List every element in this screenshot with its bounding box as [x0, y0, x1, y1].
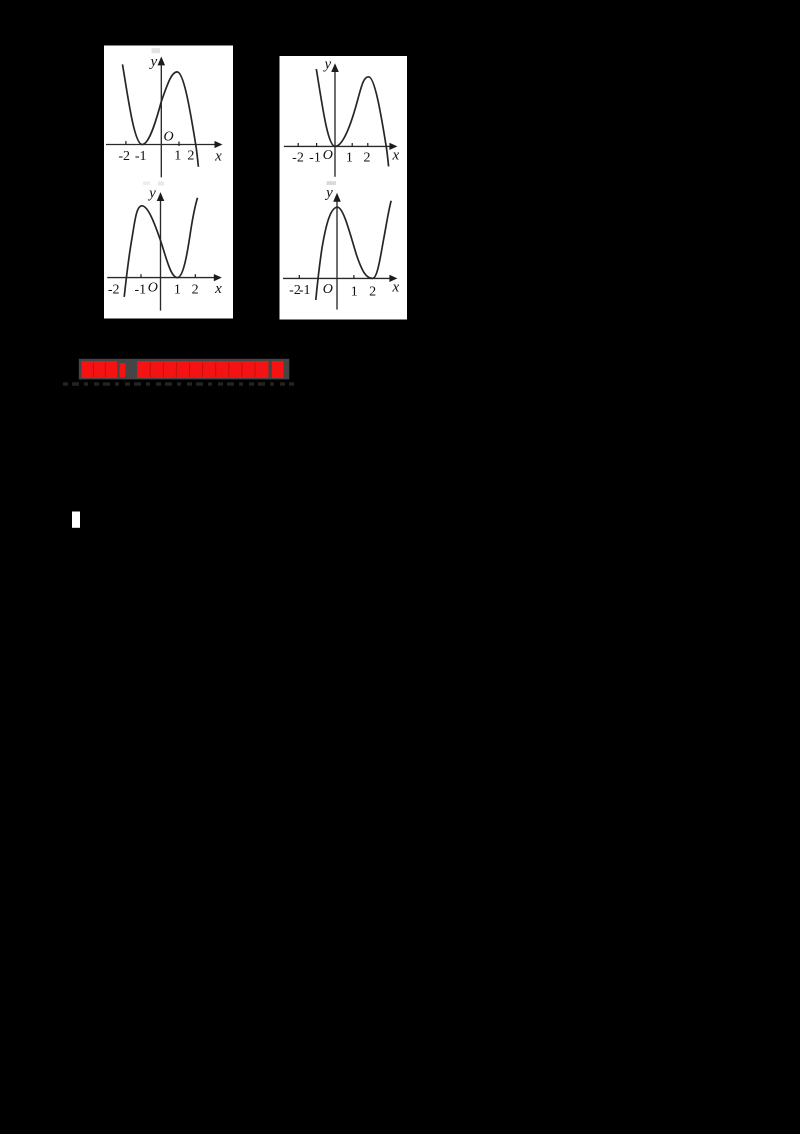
graph3 y-axis [160, 199, 162, 311]
svg-text:2: 2 [369, 285, 376, 300]
graph1 y-axis arrow [158, 57, 166, 66]
smudge left panel middle [143, 182, 150, 186]
graph3 x-axis arrow [214, 274, 222, 281]
red heading char striations [93, 363, 255, 378]
graph4 y-axis arrow [333, 193, 341, 202]
svg-text:-2: -2 [108, 283, 120, 298]
svg-text:1: 1 [346, 151, 353, 166]
graph4 y-axis [336, 200, 338, 310]
graph3 y-axis arrow [157, 192, 165, 201]
svg-text:O: O [163, 130, 173, 145]
red heading blob group1 [82, 361, 284, 378]
graph2 y-axis [334, 70, 336, 177]
red heading small numeral [120, 363, 126, 378]
graph1 tick -2 [125, 141, 127, 145]
svg-text:O: O [323, 148, 333, 163]
red heading halo [79, 359, 289, 380]
white bullet square [72, 512, 80, 528]
svg-text:y: y [148, 54, 157, 70]
graph2 x-axis arrow [389, 143, 397, 150]
graph3 curve y=(x+2)(x-1)^2 [124, 198, 197, 297]
smudge right panel middle [327, 181, 337, 185]
graph4 tick -2 [298, 275, 300, 278]
graph2 tick 1 [351, 143, 353, 146]
svg-text:-1: -1 [299, 283, 311, 298]
svg-text:x: x [391, 148, 399, 164]
graph1 curve y=-(x+1)^2(x-2) [123, 64, 199, 166]
svg-text:y: y [324, 185, 333, 201]
svg-text:O: O [323, 282, 333, 297]
graph2 curve y=-x^2(x-3) [316, 69, 388, 166]
graph2 y-axis arrow [331, 63, 339, 72]
svg-text:-2: -2 [118, 149, 130, 164]
svg-text:O: O [148, 281, 158, 296]
svg-text:-1: -1 [309, 151, 321, 166]
svg-text:1: 1 [351, 285, 358, 300]
graph1 x-axis [106, 144, 217, 146]
svg-text:2: 2 [187, 149, 194, 164]
svg-text:x: x [214, 149, 222, 165]
svg-text:y: y [322, 57, 331, 73]
graph2 tick -1 [316, 143, 318, 146]
smudge left panel top [152, 48, 161, 53]
graph1 x-axis arrow [215, 141, 223, 148]
svg-text:-1: -1 [135, 149, 147, 164]
graph2 tick -2 [297, 143, 299, 146]
panel left (options A/C) [104, 46, 233, 319]
svg-text:2: 2 [364, 151, 371, 166]
faint dash row under heading [63, 382, 294, 386]
graph2 x-axis [284, 145, 392, 147]
graph4 curve y=(x+1)(x-2)^2 [316, 201, 391, 300]
graph3 x-axis [107, 277, 216, 279]
svg-text:1: 1 [174, 283, 181, 298]
svg-text:-1: -1 [134, 283, 146, 298]
svg-text:1: 1 [174, 149, 181, 164]
svg-text:x: x [391, 280, 399, 296]
graph4 x-axis [283, 277, 392, 279]
svg-text:x: x [214, 281, 222, 297]
graph4 x-axis arrow [389, 275, 397, 282]
graph2 tick 2 [367, 143, 369, 146]
svg-text:2: 2 [192, 283, 199, 298]
panel right (options B/D) [280, 56, 408, 320]
graph1 tick 1 [178, 142, 180, 147]
graph4 tick 1 [353, 275, 355, 278]
svg-text:-2: -2 [292, 151, 304, 166]
graph3 tick -1 [140, 274, 142, 277]
red heading blob group2 [137, 361, 268, 378]
graph3 tick 2 [194, 274, 196, 277]
graph1 y-axis [160, 64, 162, 177]
svg-text:y: y [147, 186, 156, 202]
